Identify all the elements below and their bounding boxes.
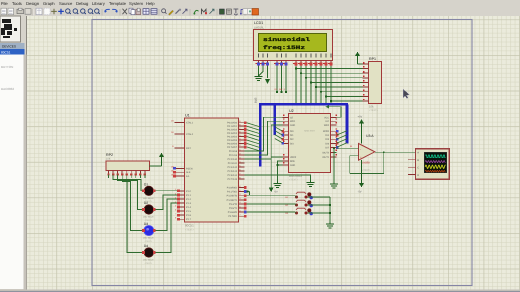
- wire op-amp output to oscilloscope channel A: [375, 151, 416, 153]
- svg-text:6: 6: [175, 209, 176, 212]
- LCD VEE down-arrow symbol: [265, 66, 270, 84]
- svg-text:P2.3/A11: P2.3/A11: [228, 162, 238, 165]
- svg-text:U2: U2: [289, 109, 294, 113]
- left panel: device list: [0, 55, 24, 290]
- LED D4: [142, 244, 155, 265]
- svg-text:<TEXT>: <TEXT>: [145, 262, 154, 265]
- svg-text:<TEXT>: <TEXT>: [289, 179, 299, 182]
- wire IOUT node down to ground: [333, 153, 335, 183]
- toolbar icons: [1, 8, 259, 15]
- svg-text:LM016L: LM016L: [254, 25, 265, 29]
- svg-text:P0.2/AD2: P0.2/AD2: [227, 129, 238, 132]
- power +5V arrow at RP2: [159, 153, 164, 167]
- wire LCD VSS/VDD to ground: [259, 66, 264, 76]
- DAC U2 internal label: [304, 130, 315, 133]
- svg-text:RFB: RFB: [290, 160, 295, 163]
- svg-text:Design: Design: [26, 1, 40, 6]
- svg-text:System: System: [129, 1, 143, 6]
- svg-text:XTAL2: XTAL2: [186, 133, 194, 136]
- svg-text:LM358: LM358: [362, 162, 370, 165]
- oscilloscope trace channel A: [425, 155, 445, 158]
- svg-text:RW: RW: [279, 88, 282, 91]
- svg-text:28: 28: [238, 176, 240, 179]
- svg-text:36: 36: [238, 130, 240, 133]
- DAC U2 right pins with names and numbers: [322, 114, 338, 159]
- svg-text:P2.1/A9: P2.1/A9: [229, 154, 238, 157]
- sheet border: [92, 20, 472, 286]
- svg-text:35: 35: [238, 134, 240, 137]
- U1 P2.0-P2.7/A pins with pin numbers: [228, 148, 245, 181]
- svg-text:sinusoidal: sinusoidal: [263, 37, 310, 43]
- svg-text:-5V: -5V: [274, 191, 278, 194]
- wire U1 P3.4 to button B3: [247, 211, 297, 214]
- svg-text:P2.5/A13: P2.5/A13: [228, 170, 238, 173]
- power -5V arrow below DAC: [269, 183, 278, 194]
- svg-text:10: 10: [238, 185, 240, 188]
- svg-text:CE: CE: [290, 116, 294, 119]
- U1 left pins XTAL1 XTAL2 RST PSEN ALE EA with pin numbers: [171, 120, 194, 178]
- wire DAC IOUT1 to op-amp inverting input: [333, 147, 358, 152]
- power +5V arrow at RP1: [355, 52, 360, 65]
- wire RP2 pin3 to LED D2 anode: [118, 175, 143, 210]
- svg-text:P3.6/WR: P3.6/WR: [228, 211, 238, 214]
- svg-text:10k: 10k: [106, 158, 111, 161]
- LED D3: [142, 222, 155, 243]
- svg-text:C: C: [417, 167, 419, 170]
- wire +5V to RP2 common: [150, 165, 162, 167]
- mouse cursor: [403, 89, 409, 99]
- wire LCD RW down: [281, 66, 283, 93]
- oscilloscope pins A B C D: [408, 160, 416, 175]
- DAC U2 body: [289, 114, 331, 173]
- svg-text:<TEXT>: <TEXT>: [369, 109, 379, 112]
- svg-text:BUS: BUS: [255, 97, 258, 103]
- svg-text:5: 5: [175, 204, 176, 207]
- wire op-amp feedback loop: [350, 151, 385, 173]
- svg-text:26: 26: [238, 168, 240, 171]
- svg-text:IOUT1: IOUT1: [322, 156, 329, 159]
- svg-text:B: B: [417, 159, 419, 162]
- wires bus to DAC DI4-DI7 diagonal taps: [337, 131, 348, 148]
- left panel splitter: [24, 55, 27, 290]
- svg-text:P1.3: P1.3: [186, 202, 192, 205]
- svg-text:P1.2: P1.2: [186, 198, 192, 201]
- U1 P1.0-P1.7 pins with state boxes: [175, 188, 192, 221]
- LCD LCD1 ref labels: [254, 21, 265, 29]
- svg-text:P0.6/AD6: P0.6/AD6: [227, 142, 238, 145]
- DAC U2 left pins with names and numbers: [281, 114, 296, 167]
- RP2 unused pin stubs: [109, 175, 145, 179]
- svg-text:80C51: 80C51: [185, 224, 194, 228]
- push button B3: [285, 208, 313, 215]
- svg-text:P1.6: P1.6: [186, 214, 192, 217]
- wire LED D3 cathode to U1 P1.2: [155, 199, 177, 231]
- wire RP2 pin5 to LED D4 anode: [127, 175, 143, 253]
- svg-text:+: +: [360, 155, 362, 159]
- ground below buttons: [326, 222, 334, 228]
- svg-text:DAC0832: DAC0832: [289, 174, 302, 178]
- wire DAC WR2 loop with arrow: [326, 105, 342, 117]
- LCD LCD1 body: [254, 30, 333, 61]
- svg-text:GND: GND: [290, 124, 295, 127]
- bus main horizontal segment: [259, 103, 348, 106]
- svg-text:freq:15Hz: freq:15Hz: [263, 45, 305, 51]
- svg-text:16: 16: [238, 209, 240, 212]
- svg-text:P1.7: P1.7: [186, 218, 192, 221]
- svg-text:VREF: VREF: [290, 156, 297, 159]
- svg-text:U3:A: U3:A: [366, 134, 374, 138]
- left panel: selected device row: [0, 49, 25, 55]
- push button B1: [285, 192, 313, 199]
- power -5V arrow below op-amp: [358, 160, 364, 193]
- bus vertical segment to DAC DI0-3: [273, 104, 276, 135]
- svg-text:RST: RST: [186, 147, 191, 150]
- svg-text:P2.4/A12: P2.4/A12: [228, 166, 238, 169]
- svg-text:IOUT2: IOUT2: [322, 152, 329, 155]
- wire LCD E down: [285, 66, 287, 93]
- svg-text:WR2: WR2: [324, 124, 330, 127]
- svg-text:13: 13: [238, 197, 240, 200]
- wire LED D2 cathode to U1 P1.1: [155, 195, 177, 210]
- svg-text:LED-BLUE: LED-BLUE: [143, 216, 154, 219]
- svg-text:Debug: Debug: [76, 1, 89, 6]
- svg-text:P3.7/RD: P3.7/RD: [228, 215, 237, 218]
- wire LCD RS down: [276, 66, 278, 93]
- svg-text:Tools: Tools: [12, 1, 22, 6]
- wire DAC RFB and GND to ground: [277, 161, 283, 182]
- svg-text:DAC0832: DAC0832: [1, 87, 14, 91]
- bottom status strip: [0, 290, 520, 292]
- svg-text:Library: Library: [92, 1, 106, 6]
- svg-text:27: 27: [238, 172, 240, 175]
- wire U1 P2.1 to DAC WR1: [245, 121, 283, 155]
- oscilloscope trace channel D: [425, 170, 445, 172]
- svg-text:34: 34: [238, 137, 240, 140]
- svg-text:D4: D4: [144, 244, 148, 248]
- left panel: DEVICES header: [0, 43, 25, 49]
- svg-text:<TEXT>: <TEXT>: [145, 240, 154, 243]
- LCD LCD1 screen with text: [259, 34, 327, 52]
- svg-text:LED-BLUE: LED-BLUE: [143, 237, 154, 240]
- svg-text:22: 22: [238, 152, 240, 155]
- edit window inner border: [26, 16, 28, 290]
- svg-text:RP1: RP1: [369, 57, 376, 61]
- svg-text:P3.3/INT1: P3.3/INT1: [227, 199, 238, 202]
- ground below op-amp input node: [330, 182, 338, 188]
- svg-text:ALE: ALE: [186, 171, 191, 174]
- svg-text:U1: U1: [185, 114, 190, 118]
- svg-text:ILE: ILE: [326, 120, 330, 123]
- svg-text:10k: 10k: [369, 105, 374, 109]
- svg-text:P1.0: P1.0: [186, 190, 192, 193]
- menu bar: [1, 1, 155, 6]
- svg-text:37: 37: [238, 127, 240, 130]
- svg-text:33: 33: [238, 141, 240, 144]
- wire +5V to RP1 common pin: [358, 63, 369, 65]
- DAC U2 value label DAC0832: [289, 174, 302, 182]
- oscilloscope screen: [424, 152, 446, 173]
- svg-text:P0.7/AD7: P0.7/AD7: [227, 146, 238, 149]
- svg-text:PSEN: PSEN: [186, 167, 193, 170]
- wire U1 P2.0 to DAC CE: [245, 117, 283, 151]
- svg-text:P3.5/T1: P3.5/T1: [229, 207, 238, 210]
- svg-text:WR1: WR1: [290, 120, 296, 123]
- svg-text:P0.3/AD3: P0.3/AD3: [227, 132, 238, 135]
- svg-text:A: A: [417, 152, 419, 155]
- svg-text:LED-BLUE: LED-BLUE: [143, 259, 154, 262]
- svg-text:XTAL1: XTAL1: [186, 122, 194, 125]
- wire RP2 pin2 to LED D1 anode: [113, 175, 142, 191]
- svg-text:24: 24: [238, 160, 240, 163]
- junction node near P3.1: [246, 191, 249, 196]
- wires LCD D0-D7 to RP1 with bus drops: [295, 66, 362, 103]
- svg-text:LED-BLUE: LED-BLUE: [143, 197, 154, 200]
- LED D1: [142, 182, 155, 203]
- svg-text:<TEXT>: <TEXT>: [362, 169, 371, 172]
- svg-text:8: 8: [175, 217, 176, 220]
- wire LED D1 cathode to U1 P1.0: [155, 190, 177, 192]
- svg-text:23: 23: [238, 156, 240, 159]
- svg-text:P1.5: P1.5: [186, 210, 192, 213]
- svg-text:P3.2/INT0: P3.2/INT0: [227, 195, 238, 198]
- svg-text:21: 21: [238, 148, 240, 151]
- svg-text:80C51: 80C51: [1, 51, 11, 55]
- svg-text:XFER: XFER: [323, 130, 329, 133]
- net labels RS RW E: [275, 88, 286, 91]
- LCD pin stubs and logic-state boxes: [255, 61, 332, 67]
- svg-text:P2.2/A10: P2.2/A10: [228, 158, 238, 161]
- ground under LCD: [254, 75, 262, 81]
- svg-text:<TEXT>: <TEXT>: [185, 229, 195, 232]
- wires U1 P0 pins diagonal taps to bus: [247, 123, 261, 151]
- svg-text:P2.7/A15: P2.7/A15: [228, 178, 238, 181]
- svg-text:P3.4/T0: P3.4/T0: [229, 203, 238, 206]
- svg-text:P0.0/AD0: P0.0/AD0: [227, 122, 238, 125]
- svg-text:+5V: +5V: [358, 116, 363, 119]
- wires bus to DAC DI0-DI3 diagonal taps: [275, 127, 283, 143]
- resistor pack RP2 body: [106, 161, 150, 171]
- svg-text:25: 25: [238, 164, 240, 167]
- svg-text:P0.5/AD5: P0.5/AD5: [227, 139, 238, 142]
- svg-text:Template: Template: [109, 1, 127, 6]
- svg-text:39: 39: [238, 120, 240, 123]
- svg-text:P0.4/AD4: P0.4/AD4: [227, 136, 238, 139]
- svg-text:D1: D1: [144, 182, 148, 186]
- svg-text:GND: GND: [290, 164, 295, 167]
- svg-text:Graph: Graph: [43, 1, 55, 6]
- wire U1 P2.6 to analog ground: [245, 175, 311, 181]
- svg-text:RP2: RP2: [106, 153, 113, 157]
- ground below DAC right: [306, 181, 314, 187]
- svg-text:11: 11: [239, 189, 241, 192]
- resistor pack RP2 ref label: [106, 153, 113, 161]
- bus vertical segment to P0: [259, 104, 262, 166]
- svg-text:P0.1/AD1: P0.1/AD1: [227, 125, 238, 128]
- svg-text:P1.4: P1.4: [186, 206, 192, 209]
- svg-text:D: D: [417, 174, 419, 177]
- svg-text:-: -: [360, 147, 361, 151]
- ground below DAC left: [273, 182, 281, 188]
- wire U1 P3.3 to button B2: [247, 204, 297, 205]
- left panel: overview window: [0, 16, 21, 42]
- svg-text:DEVICES: DEVICES: [2, 45, 16, 49]
- svg-text:12: 12: [238, 193, 240, 196]
- svg-text:17: 17: [238, 214, 240, 217]
- svg-text:P2.6/A14: P2.6/A14: [228, 174, 238, 177]
- svg-text:P3.0/RXD: P3.0/RXD: [227, 187, 238, 190]
- LCD pin name labels (vertical marks): [258, 54, 331, 58]
- svg-text:VCC: VCC: [324, 116, 329, 119]
- svg-text:7: 7: [175, 213, 176, 216]
- svg-text:P1.1: P1.1: [186, 194, 192, 197]
- svg-text:EA: EA: [186, 175, 190, 178]
- svg-text:14: 14: [238, 201, 240, 204]
- op-amp input polarity marks: [360, 147, 362, 159]
- LED D2: [142, 201, 155, 222]
- power +5V arrow above op-amp: [358, 116, 364, 144]
- RP2 pins with state boxes: [107, 171, 146, 176]
- svg-text:BUTTON: BUTTON: [1, 65, 13, 69]
- op-amp U3:A triangle: [359, 144, 375, 161]
- oscilloscope body: [416, 149, 450, 179]
- wire RP2 pin4 to LED D3 anode: [122, 175, 142, 231]
- oscilloscope trace channel B: [425, 161, 445, 163]
- wire op-amp non-inverting input loop: [350, 156, 359, 174]
- svg-text:File: File: [1, 1, 8, 6]
- U1 P0.0-P0.7/AD pins with state boxes: [227, 120, 246, 149]
- svg-text:15: 15: [238, 205, 240, 208]
- wire U1 P3.2 to button B1: [247, 196, 297, 197]
- svg-text:D2: D2: [144, 201, 148, 205]
- svg-text:32: 32: [238, 144, 240, 147]
- svg-text:MSB 8-BIT: MSB 8-BIT: [304, 130, 315, 133]
- wire U1 P2.2 to DAC GND: [245, 125, 283, 159]
- resistor pack RP1: [363, 57, 382, 112]
- svg-text:Source: Source: [59, 1, 73, 6]
- oscilloscope trace channel C: [425, 165, 445, 168]
- wire buttons to common ground rail: [308, 197, 332, 222]
- toolbar background: [0, 8, 520, 17]
- svg-text:P2.0/A8: P2.0/A8: [229, 150, 238, 153]
- U1 value label 80C51: [185, 224, 195, 232]
- svg-text:38: 38: [238, 123, 240, 126]
- wire LED D4 cathode to U1 P1.3: [155, 203, 177, 253]
- bus vertical segment to DAC DI4-7: [346, 104, 349, 143]
- svg-text:P3.1/TXD: P3.1/TXD: [227, 191, 237, 194]
- wire DAC VREF to -5V arrow: [271, 157, 282, 188]
- microcontroller U1 body: [185, 118, 239, 222]
- svg-text:Help: Help: [146, 1, 155, 6]
- U1 P3.0-P3.7 pins with state boxes: [227, 185, 247, 218]
- oscilloscope channel labels A B C D: [417, 152, 419, 177]
- push button B2: [285, 200, 313, 207]
- svg-text:-5V: -5V: [358, 191, 362, 194]
